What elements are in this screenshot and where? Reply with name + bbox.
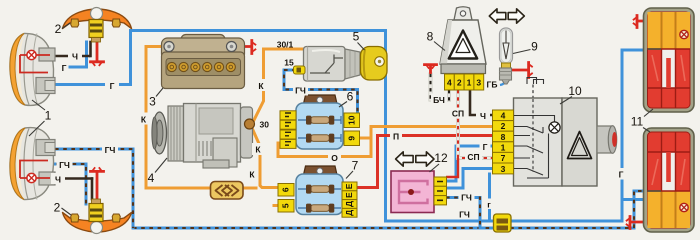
label Г (top lamp to rail)	[105, 80, 119, 91]
connector barrel	[597, 126, 612, 153]
wire ГЧ: bottom rail dashes	[133, 227, 634, 229]
label 30 (alternator stud)	[260, 120, 270, 130]
svg-text:9: 9	[531, 40, 538, 54]
svg-text:СП: СП	[467, 152, 479, 162]
callout 2 (bottom repeater)	[54, 201, 71, 216]
ground + internal wire of top tail lamp	[634, 16, 684, 30]
svg-text:3: 3	[476, 78, 481, 88]
svg-text:2: 2	[54, 201, 61, 215]
svg-text:4: 4	[501, 111, 506, 121]
bulb symbol of top tail lamp	[680, 30, 688, 38]
svg-text:8: 8	[501, 132, 506, 142]
svg-text:ГЧ: ГЧ	[461, 192, 472, 202]
wire БЧ: white base	[431, 73, 450, 100]
wire СП branch: to switch 12 top terminal (red)	[446, 158, 458, 177]
wire ГЧ: bottom lamp to bottom repeater (blue base)	[48, 164, 86, 204]
label К (30/1 riser)	[255, 79, 268, 91]
fuse 1 of block 6	[311, 117, 330, 124]
svg-text:2: 2	[457, 78, 462, 88]
svg-text:Г: Г	[62, 63, 67, 73]
label 30/1	[277, 40, 294, 50]
label Г (right riser)	[615, 168, 627, 180]
fuse 2 of block 7	[311, 205, 330, 212]
ground at bottom side repeater	[91, 168, 104, 204]
tail lamp 11 (top)	[644, 8, 695, 112]
svg-text:ГБ: ГБ	[487, 79, 498, 89]
svg-text:Д: Д	[344, 201, 354, 207]
tail lamp 11 (bottom, mirrored)	[644, 128, 695, 232]
wire О: fuse block 6 left lower terminal to riser at x371	[278, 143, 371, 157]
label ГЧ (switch 12 bottom wire)	[459, 191, 475, 202]
hazard terminals 4 2 1 3	[445, 74, 455, 90]
wire Ч: bottom side repeater lead	[91, 179, 94, 200]
wire Г: top side repeater stub	[70, 42, 87, 67]
ground at pilot lamp 9	[511, 63, 532, 78]
svg-text:ГЧ: ГЧ	[59, 160, 70, 170]
svg-text:11: 11	[631, 115, 644, 129]
relay terminals 4 2 8 1 7 3	[493, 110, 514, 121]
rear bracket	[241, 107, 253, 158]
svg-text:4: 4	[148, 171, 155, 185]
callout 1 (front lamps)	[29, 100, 52, 136]
callout 8 (hazard switch)	[427, 30, 445, 51]
label СП (at relay terminal 7)	[465, 151, 482, 162]
wire ГЧ: riser to bottom tail lamp dashes	[634, 191, 645, 228]
label О (fuse 6 to riser)	[328, 152, 341, 164]
svg-text:Г: Г	[619, 169, 624, 179]
svg-text:7: 7	[501, 153, 506, 163]
svg-text:10: 10	[346, 115, 356, 125]
wire К: fuse block 6 terminal 9 to relay terminal 2	[358, 127, 492, 157]
svg-text:К: К	[258, 81, 264, 91]
label ГЧ (near bottom rail)	[459, 210, 470, 220]
svg-text:2: 2	[501, 121, 506, 131]
hazard triangle symbol	[449, 31, 477, 59]
battery terminal minus	[164, 42, 174, 52]
svg-text:СП: СП	[452, 109, 464, 119]
label ГЧ (ignition to fuse 6)	[293, 84, 308, 96]
wire К: alternator stud diagonal up to 30/1 riser and to ignition switch	[252, 49, 304, 124]
ground at hazard switch (БЧ)	[425, 65, 437, 73]
callout 6 (fuse block 6)	[339, 90, 354, 108]
plug connector symbol in К wire	[211, 182, 244, 200]
svg-text:6: 6	[347, 90, 354, 104]
callout 2 (top repeater)	[55, 22, 70, 36]
svg-text:9: 9	[346, 136, 356, 141]
svg-text:1: 1	[501, 142, 506, 152]
wire ГЧ: bottom-left lamp riser dashes	[55, 149, 133, 228]
svg-text:ГЧ: ГЧ	[295, 85, 306, 95]
side repeater 2 (bottom, mirrored)	[63, 199, 132, 234]
fuse 2 of block 6	[311, 135, 330, 142]
callout 12 (turn signal switch)	[430, 151, 448, 172]
fan	[168, 106, 184, 161]
wire СП: white base	[458, 90, 492, 158]
chassis staples above relay	[527, 78, 544, 85]
fuse block 7 left terminal 6	[278, 184, 294, 197]
relay pilot lamp symbol	[549, 122, 560, 133]
mechanical dashed link	[532, 85, 534, 99]
fuse block 7 right terminals Е Е Д Д	[342, 182, 357, 191]
svg-text:Ч: Ч	[55, 174, 61, 184]
wire Ч: front-left top lamp to repeater zone	[50, 55, 89, 58]
terminal 30 stud	[245, 119, 255, 129]
wire СП: hazard switch terminal 2 to relay terminal 7 (casing)	[458, 90, 492, 158]
wire Г: front-left top lamp to top rail, down right side to tail lamps	[53, 31, 645, 222]
svg-text:7: 7	[352, 159, 359, 173]
svg-text:БЧ: БЧ	[433, 95, 445, 105]
label Ч (hazard to relay 4)	[476, 110, 490, 121]
svg-text:12: 12	[434, 151, 448, 165]
wire ГБ: hazard switch terminal 3 stub toward pilot lamp	[500, 79, 505, 85]
wire ГЧ: bottom lamp to bottom repeater dashes	[48, 164, 86, 204]
ground + internal wire of bottom tail lamp	[627, 213, 684, 229]
label 15	[284, 58, 294, 68]
label ГЧ (bottom lamp riser)	[102, 144, 118, 156]
wire ГЧ: switch 12 bottom terminal to bottom rail (blue base)	[446, 198, 480, 229]
callout 5 (ignition switch)	[353, 30, 365, 51]
label ГЧ (bottom lamp to repeater)	[57, 159, 73, 171]
svg-text:5: 5	[353, 30, 360, 44]
svg-text:30/1: 30/1	[277, 40, 294, 50]
svg-text:8: 8	[427, 30, 434, 44]
svg-text:П: П	[393, 131, 399, 141]
side repeater 2 (top)	[63, 8, 132, 43]
ground at top side repeater	[91, 42, 104, 65]
label К (battery drop)	[137, 113, 150, 125]
bulb symbol of bottom tail lamp	[680, 203, 688, 211]
switch 12 terminals	[434, 177, 447, 186]
body	[184, 104, 241, 163]
svg-text:1: 1	[45, 109, 52, 123]
fuse block 6 right terminal 10	[344, 113, 360, 128]
svg-text:г: г	[487, 199, 491, 209]
svg-text:3: 3	[149, 95, 156, 109]
label К (alternator to fuse 7)	[252, 143, 265, 155]
wire СП: red dashes	[458, 90, 492, 158]
fuse block 7 left terminal 5	[278, 200, 294, 213]
label ГБ (hazard terminal 3)	[487, 79, 498, 89]
wire ГЧ: ignition switch 15 to fuse block 6 dashes	[284, 70, 358, 115]
svg-text:15: 15	[284, 58, 294, 68]
svg-text:3: 3	[501, 164, 506, 174]
svg-text:30: 30	[260, 120, 270, 130]
internal lamp wiring (red)	[20, 55, 50, 73]
relay internal schematic	[514, 116, 555, 123]
wire Г: relay terminal 3 to switch 12 middle terminal	[446, 169, 493, 189]
svg-text:К: К	[249, 170, 255, 180]
svg-text:ГЧ: ГЧ	[459, 210, 470, 220]
svg-text:6: 6	[281, 187, 291, 192]
fuse 1 of block 7	[311, 186, 330, 193]
wire Ч: hazard switch terminal 1 to relay terminal 4	[470, 90, 492, 115]
bottom lug	[213, 138, 237, 167]
ground at battery right terminal	[237, 41, 255, 54]
wire ГЧ: bottom rail (blue base)	[133, 227, 634, 230]
svg-text:Д: Д	[344, 210, 354, 216]
wire Г: relay terminal 1 to switch 12 top terminal	[446, 146, 493, 181]
svg-text:Е: Е	[344, 183, 354, 189]
wire ГЧ: switch 12 bottom terminal to bottom rail dashes	[446, 198, 480, 229]
wire stub: fuse block 7 terminal 5	[274, 204, 280, 207]
label К (lower diagonal)	[249, 170, 255, 180]
label СП (hazard to relay 7, upper)	[449, 108, 467, 119]
label Ч (bottom lamp)	[51, 173, 65, 184]
svg-text:2: 2	[55, 22, 62, 36]
pulley	[153, 112, 167, 154]
bulb symbol of lamp 1 (top)	[27, 50, 36, 59]
wire БЧ: black dashes	[431, 73, 450, 100]
battery cell caps	[167, 62, 235, 71]
wire К: alternator stud down to fuse block 7 terminal 6	[252, 128, 280, 188]
wire БЧ: hazard switch terminal 4 to ground (casing)	[431, 73, 450, 100]
svg-text:1: 1	[467, 78, 472, 88]
wire ГЧ: ignition switch 15 to fuse block 6 (blue base)	[284, 70, 358, 115]
svg-text:Г: Г	[110, 81, 115, 91]
fuse block 6 right terminal 9	[344, 131, 360, 146]
svg-text:К: К	[141, 114, 147, 124]
svg-text:5: 5	[281, 203, 291, 208]
label БЧ (hazard ground wire)	[431, 94, 447, 105]
wire Ч: top side repeater lead	[89, 42, 92, 56]
svg-text:Ч: Ч	[72, 52, 78, 62]
svg-text:К: К	[255, 145, 261, 155]
svg-text:ГЧ: ГЧ	[105, 145, 116, 155]
svg-text:Г: Г	[483, 142, 488, 152]
wire К: battery left terminal down and along bottom to alternator stud	[146, 47, 256, 189]
front turn-signal lamp 1 (bottom, mirrored)	[10, 127, 55, 200]
relay triangle symbol	[568, 132, 592, 159]
battery terminal plus	[227, 42, 237, 52]
label г (relay 3 drop)	[484, 199, 495, 210]
callout 11 (tail lamps)	[631, 109, 653, 132]
callout 10 (relay)	[560, 84, 582, 104]
callout 4 (alternator)	[148, 158, 167, 185]
wire Г branch: right vertical to bottom tail lamp	[622, 198, 645, 201]
wire ГЧ: riser to bottom tail lamp (blue base)	[634, 191, 645, 228]
svg-text:Е: Е	[344, 192, 354, 198]
wire П: fuse block 7 to relay terminal 8 (red)	[357, 136, 492, 188]
label Г (at relay terminal 1)	[480, 141, 491, 152]
svg-text:Ч: Ч	[480, 111, 486, 121]
wire Г: relay terminal 3 down to inline connector	[488, 174, 491, 221]
label Г (top repeater stub)	[62, 63, 67, 73]
callout 9 (pilot lamp)	[513, 40, 538, 54]
front turn-signal lamp 1 (top)	[10, 33, 55, 106]
wire Ч: front-left bottom lamp to repeater zone	[45, 177, 92, 180]
svg-text:О: О	[331, 153, 338, 163]
svg-text:10: 10	[568, 84, 582, 98]
connector on 15 wire	[294, 66, 306, 74]
label П (red wire)	[390, 131, 402, 142]
svg-text:4: 4	[447, 78, 452, 88]
callout 7 (fuse block 7)	[346, 159, 359, 179]
wire ГЧ: bottom-left lamp riser (blue base)	[55, 149, 133, 228]
label Ч (top lamp)	[68, 50, 82, 62]
callout 3 (battery)	[149, 88, 163, 109]
fuse block 6 left terminals	[280, 111, 296, 120]
